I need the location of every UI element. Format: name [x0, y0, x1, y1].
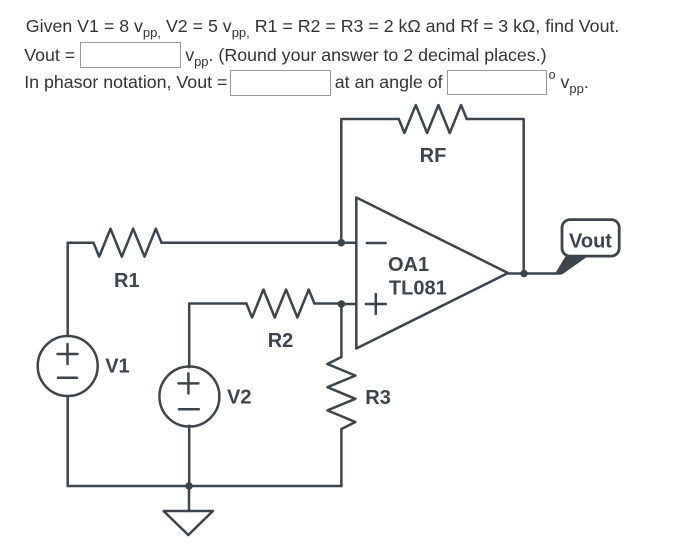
svg-text:R1: R1 [114, 270, 140, 292]
svg-text:V1: V1 [105, 356, 129, 378]
svg-text:V2: V2 [227, 387, 251, 409]
svg-text:Vout: Vout [569, 230, 612, 252]
svg-text:RF: RF [420, 145, 447, 167]
svg-text:OA1: OA1 [388, 254, 429, 276]
svg-text:TL081: TL081 [389, 278, 447, 300]
svg-text:R2: R2 [268, 330, 294, 352]
svg-text:R3: R3 [365, 387, 391, 409]
